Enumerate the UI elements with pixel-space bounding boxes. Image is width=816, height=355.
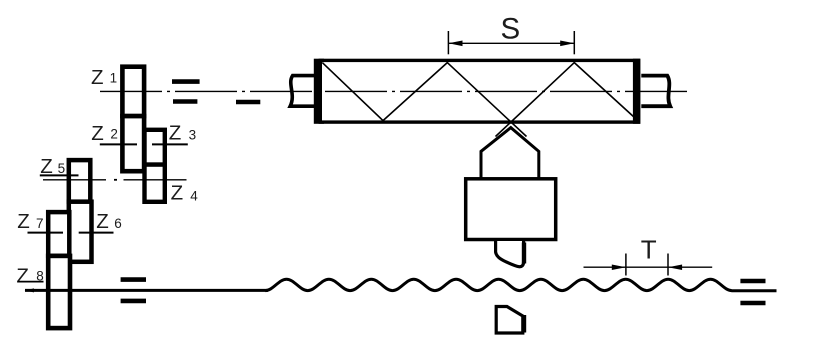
half-nut right edge xyxy=(522,315,526,333)
svg-text:Z: Z xyxy=(169,121,182,144)
workpiece body xyxy=(320,60,638,122)
svg-text:Z: Z xyxy=(96,210,109,233)
tool holder house xyxy=(481,128,539,179)
gear Z5 xyxy=(69,160,91,202)
svg-text:Z: Z xyxy=(40,155,53,178)
leadscrew left bearing upper dash xyxy=(121,277,146,282)
leadscrew left bearing lower dash xyxy=(121,299,146,304)
gear Z3 xyxy=(145,130,165,165)
svg-text:Z: Z xyxy=(17,210,30,233)
spindle bearing lower dash xyxy=(173,99,197,104)
leader line Z5 xyxy=(40,174,79,176)
half-nut under leadscrew xyxy=(496,307,523,334)
svg-text:Z: Z xyxy=(16,265,29,288)
svg-text:1: 1 xyxy=(110,71,118,86)
gear Z4 xyxy=(145,165,165,202)
svg-text:4: 4 xyxy=(190,188,198,203)
gear Z7 xyxy=(48,212,69,256)
dimension S right arrow xyxy=(560,41,574,47)
dimension T left arrow xyxy=(612,265,626,271)
workpiece left flange (filled) xyxy=(314,59,324,124)
leadscrew right bearing upper dash xyxy=(740,279,765,284)
leader line Z6 xyxy=(79,232,114,234)
dimension S extension ticks xyxy=(447,31,449,54)
svg-text:5: 5 xyxy=(58,161,66,176)
svg-text:7: 7 xyxy=(36,216,44,231)
cutting tool bit xyxy=(496,241,524,267)
thread zigzag on workpiece xyxy=(322,63,526,137)
svg-text:Z: Z xyxy=(171,182,184,205)
leadscrew shaft right segment xyxy=(732,289,777,292)
leader line Z3 xyxy=(152,143,188,145)
gear Z8 xyxy=(48,256,70,328)
dimension S line xyxy=(448,42,574,44)
gear Z6 xyxy=(69,202,92,262)
leader line Z8 xyxy=(18,281,44,283)
workpiece right flange (filled) xyxy=(633,59,640,124)
svg-text:T: T xyxy=(641,234,657,264)
svg-text:Z: Z xyxy=(91,122,104,145)
dimension S left arrow xyxy=(448,41,462,47)
shaft 3 axis (Z4/Z5) xyxy=(43,179,106,181)
svg-text:3: 3 xyxy=(189,127,197,142)
tool post body xyxy=(466,179,556,240)
dimension T extension ticks xyxy=(625,254,627,276)
leadscrew thread wave xyxy=(265,279,731,290)
leadscrew right bearing lower dash xyxy=(740,301,765,306)
svg-text:2: 2 xyxy=(110,127,118,142)
svg-text:S: S xyxy=(501,12,521,45)
gear Z2 xyxy=(122,116,144,171)
gear Z1 xyxy=(122,67,144,116)
leader line Z2 xyxy=(100,143,137,145)
svg-text:Z: Z xyxy=(91,66,104,89)
spindle support dash xyxy=(236,100,260,105)
spindle centerline xyxy=(100,90,692,92)
svg-text:6: 6 xyxy=(114,216,122,231)
leader line Z7 xyxy=(28,232,64,234)
leadscrew shaft left segment xyxy=(25,288,35,292)
tool bit right edge xyxy=(522,243,526,264)
dimension T line xyxy=(584,266,713,268)
workpiece right stub (tailstock side, break line) xyxy=(641,76,670,107)
dimension T right arrow xyxy=(668,265,682,271)
spindle bearing upper dash xyxy=(172,79,200,84)
workpiece left stub (chuck side, break line) xyxy=(290,76,316,107)
